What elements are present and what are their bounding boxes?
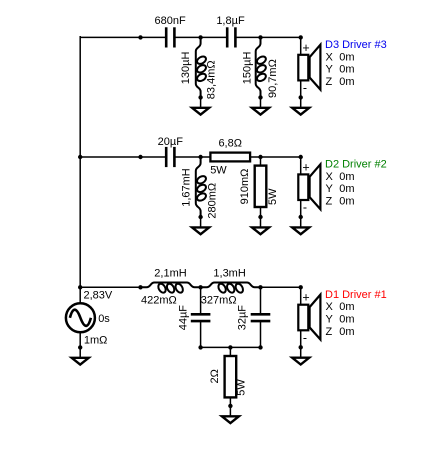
svg-text:680nF: 680nF <box>154 15 185 27</box>
svg-text:5W: 5W <box>210 164 227 176</box>
node: top branch node 1 <box>198 35 202 39</box>
svg-text:0m: 0m <box>339 171 354 183</box>
svg-text:910mΩ: 910mΩ <box>239 169 251 205</box>
node: mid branch junction <box>138 155 142 159</box>
resistor R4 910mohm <box>255 157 267 217</box>
svg-text:32µF: 32µF <box>237 305 249 331</box>
svg-text:X: X <box>326 171 334 183</box>
svg-text:Y: Y <box>326 183 334 195</box>
svg-text:0s: 0s <box>98 313 110 325</box>
svg-text:2Ω: 2Ω <box>209 369 221 383</box>
node: woofer branch junction <box>138 285 142 289</box>
svg-text:422mΩ: 422mΩ <box>141 295 177 307</box>
resistor R1 2ohm <box>225 347 237 406</box>
node: tweeter minus terminal <box>299 95 303 99</box>
ground: tweeter <box>292 97 309 114</box>
svg-text:+: + <box>302 160 309 174</box>
svg-text:D3 Driver #3: D3 Driver #3 <box>325 39 387 51</box>
ground: source <box>72 347 89 364</box>
voltage source V1 2.83V <box>66 303 95 332</box>
node: bottom rail to R1 junction <box>228 345 232 349</box>
svg-text:0m: 0m <box>339 51 354 63</box>
capacitor C3 20uF <box>166 147 174 167</box>
svg-text:+: + <box>302 41 309 55</box>
ground: R4 <box>252 217 269 234</box>
node: woofer minus terminal <box>299 345 303 349</box>
wire: C5 to C6 <box>174 36 227 38</box>
svg-text:150µH: 150µH <box>241 52 253 85</box>
svg-text:90,7mΩ: 90,7mΩ <box>267 59 279 98</box>
svg-text:130µH: 130µH <box>180 52 192 85</box>
svg-text:+: + <box>302 291 309 305</box>
svg-text:Y: Y <box>326 314 334 326</box>
svg-text:6,8Ω: 6,8Ω <box>218 137 242 149</box>
ground: midrange <box>292 217 309 234</box>
node: top branch node 2 <box>258 35 262 39</box>
ground: L6 <box>252 97 269 114</box>
capacitor C1 44uF leads <box>200 287 202 347</box>
inductor L6 150uH <box>256 37 268 97</box>
svg-text:D1 Driver #1: D1 Driver #1 <box>325 289 387 301</box>
svg-text:Z: Z <box>326 326 333 338</box>
svg-text:44µF: 44µF <box>178 305 190 331</box>
inductor L5 130uH <box>196 37 208 97</box>
svg-text:83,4mΩ: 83,4mΩ <box>205 60 217 99</box>
node: woofer node 1 <box>198 285 202 289</box>
node: woofer node 2 <box>258 285 262 289</box>
wire: woofer branch from bus to L1 <box>80 286 140 288</box>
node: bus to woofer branch junction <box>78 285 82 289</box>
wire: top branch from bus to C5 <box>80 36 166 38</box>
node: source ground junction <box>78 345 82 349</box>
capacitor C2 32uF leads <box>260 287 262 347</box>
svg-text:1mΩ: 1mΩ <box>84 335 108 347</box>
wire: R3 to midrange <box>250 156 301 158</box>
capacitor C6 1.8uF <box>227 27 235 47</box>
node: mid branch node 2 <box>258 155 262 159</box>
wire: C3 to R3 <box>174 156 210 158</box>
svg-text:0m: 0m <box>339 76 354 88</box>
svg-text:20µF: 20µF <box>158 136 184 148</box>
node: woofer plus terminal <box>299 285 303 289</box>
svg-text:-: - <box>303 331 307 345</box>
inductor L3 1.67mH <box>196 157 208 217</box>
svg-text:0m: 0m <box>339 64 354 76</box>
svg-text:-: - <box>303 201 307 215</box>
ground: L3 <box>192 217 209 234</box>
wire: bottom rail between C1 and C2 <box>201 346 261 348</box>
wire: L2 to woofer <box>261 286 301 288</box>
node: L6 bottom terminal <box>258 95 262 99</box>
svg-text:0m: 0m <box>339 326 354 338</box>
svg-text:0m: 0m <box>339 196 354 208</box>
node: R4 bottom terminal <box>258 215 262 219</box>
node: L3 bottom terminal <box>198 215 202 219</box>
node: top branch junction <box>138 35 142 39</box>
wire: source bottom lead <box>79 333 81 348</box>
svg-text:1,67mH: 1,67mH <box>180 168 192 207</box>
svg-text:0m: 0m <box>339 183 354 195</box>
svg-text:1,8µF: 1,8µF <box>216 15 245 27</box>
svg-text:Z: Z <box>326 76 333 88</box>
svg-text:Y: Y <box>326 64 334 76</box>
wire: source top lead <box>79 287 81 303</box>
capacitor C2 32uF <box>251 314 271 321</box>
node: L5 bottom terminal <box>198 95 202 99</box>
speaker D1 woofer driver <box>298 287 320 347</box>
wire: C6 to tweeter <box>235 36 300 38</box>
svg-text:X: X <box>326 301 334 313</box>
ground: L5 <box>192 97 209 114</box>
speaker D3 tweeter driver <box>298 37 320 97</box>
svg-text:5W: 5W <box>235 379 247 396</box>
svg-text:2,83V: 2,83V <box>84 289 113 301</box>
wire: mid branch from bus to C3 <box>80 156 166 158</box>
capacitor C1 44uF <box>191 314 211 321</box>
svg-text:X: X <box>326 51 334 63</box>
svg-text:0m: 0m <box>339 314 354 326</box>
svg-text:Z: Z <box>326 196 333 208</box>
ground: woofer <box>292 347 309 364</box>
ground: R1 <box>222 406 239 423</box>
svg-text:280mΩ: 280mΩ <box>206 183 218 219</box>
svg-text:327mΩ: 327mΩ <box>201 295 237 307</box>
svg-text:2,1mH: 2,1mH <box>154 267 186 279</box>
svg-text:1,3mH: 1,3mH <box>213 267 245 279</box>
speaker D2 midrange driver <box>298 157 320 217</box>
wire: left vertical bus <box>79 36 81 287</box>
node: midrange plus terminal <box>299 155 303 159</box>
node: bus to midrange branch junction <box>78 155 82 159</box>
svg-text:-: - <box>303 81 307 95</box>
node: R1 bottom terminal <box>228 404 232 408</box>
node: mid branch node 1 <box>198 155 202 159</box>
capacitor C5 680nF <box>166 27 174 47</box>
node: C1 bottom terminal <box>198 345 202 349</box>
svg-text:0m: 0m <box>339 301 354 313</box>
node: C2 bottom terminal <box>258 345 262 349</box>
node: midrange minus terminal <box>299 215 303 219</box>
svg-text:D2 Driver #2: D2 Driver #2 <box>325 159 387 171</box>
inductor L1 2.1mH <box>141 282 201 294</box>
inductor L2 1.3mH <box>201 282 261 294</box>
node: tweeter plus terminal <box>299 35 303 39</box>
resistor R3 6.8ohm <box>210 153 250 162</box>
svg-text:5W: 5W <box>267 188 279 205</box>
